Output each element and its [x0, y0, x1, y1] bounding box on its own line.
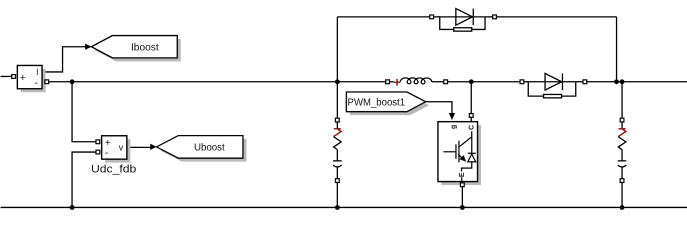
svg-text:+: + [20, 72, 26, 84]
svg-text:Iboost: Iboost [131, 42, 159, 53]
svg-text:Uboost: Uboost [194, 142, 225, 153]
svg-text:-: - [35, 77, 39, 89]
svg-text:-: - [105, 148, 108, 159]
svg-text:E: E [459, 172, 466, 177]
svg-text:v: v [119, 142, 124, 152]
svg-text:C: C [469, 125, 476, 130]
svg-text:I: I [36, 67, 38, 77]
svg-text:g: g [450, 125, 457, 129]
svg-text:+: + [105, 138, 111, 149]
svg-text:PWM_boost1: PWM_boost1 [348, 96, 406, 108]
svg-text:Udc_fdb: Udc_fdb [91, 164, 136, 176]
